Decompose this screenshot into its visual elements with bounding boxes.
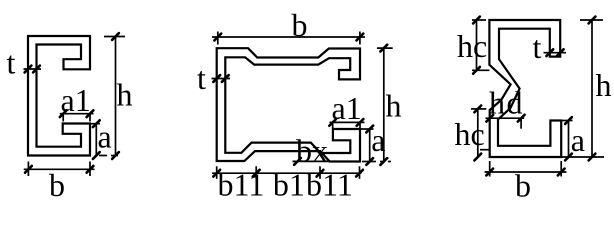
dimensions b11 / b1 / b11 (bottom, figure 2) xyxy=(216,166,218,179)
svg-text:h: h xyxy=(386,88,402,124)
svg-text:b: b xyxy=(515,168,531,204)
dimension hd (jog depth, figure 3) xyxy=(485,117,524,119)
dimension b (width, figure 1) xyxy=(27,162,29,177)
svg-text:hc: hc xyxy=(457,28,487,64)
svg-text:b: b xyxy=(292,7,308,43)
svg-text:b11: b11 xyxy=(218,167,265,203)
dimension t (web thickness, figure 1) xyxy=(24,68,42,70)
profile section 3: jogged-web channel outline xyxy=(489,20,561,157)
dimension a (lip height, figure 3) xyxy=(562,120,573,122)
label bx with leader (figure 2) xyxy=(293,160,331,162)
svg-text:b11: b11 xyxy=(306,167,353,203)
dimension a1 (hook width, figure 2) xyxy=(330,121,365,123)
dimension h (height, figure 1) xyxy=(104,36,125,38)
dimension hc (bottom, figure 3) xyxy=(471,108,486,110)
svg-text:bx: bx xyxy=(296,133,328,169)
dimension a (hook height, figure 1) xyxy=(90,123,100,125)
svg-text:h: h xyxy=(117,77,133,113)
dimension hc (top, figure 3) xyxy=(472,19,486,21)
svg-text:b: b xyxy=(49,167,65,203)
svg-text:t: t xyxy=(533,29,542,65)
dimension h (height, figure 3) xyxy=(580,19,603,21)
svg-text:hc: hc xyxy=(455,116,485,152)
svg-text:hd: hd xyxy=(489,84,524,120)
dimension h (height, figure 2) xyxy=(377,47,393,49)
dimension t (web thickness, figure 2) xyxy=(212,78,231,80)
dimension t (lip thickness, figure 3) xyxy=(544,52,567,54)
dimension a (hook height, figure 2) xyxy=(361,128,374,130)
svg-text:a: a xyxy=(98,119,112,155)
svg-text:t: t xyxy=(197,60,206,96)
svg-text:b1: b1 xyxy=(273,167,305,203)
dimension b (width, figure 2) xyxy=(217,32,219,45)
svg-text:a: a xyxy=(571,122,585,158)
svg-text:a1: a1 xyxy=(332,90,362,126)
profile section 1: lipped channel outline xyxy=(28,36,90,156)
dimension b (width, figure 3) xyxy=(489,161,491,177)
svg-text:a1: a1 xyxy=(61,82,91,118)
dimension a1 (hook width, figure 1) xyxy=(60,113,94,115)
profile section 2: swaged channel outline xyxy=(217,48,360,161)
svg-text:t: t xyxy=(7,45,16,81)
svg-text:h: h xyxy=(596,67,612,103)
